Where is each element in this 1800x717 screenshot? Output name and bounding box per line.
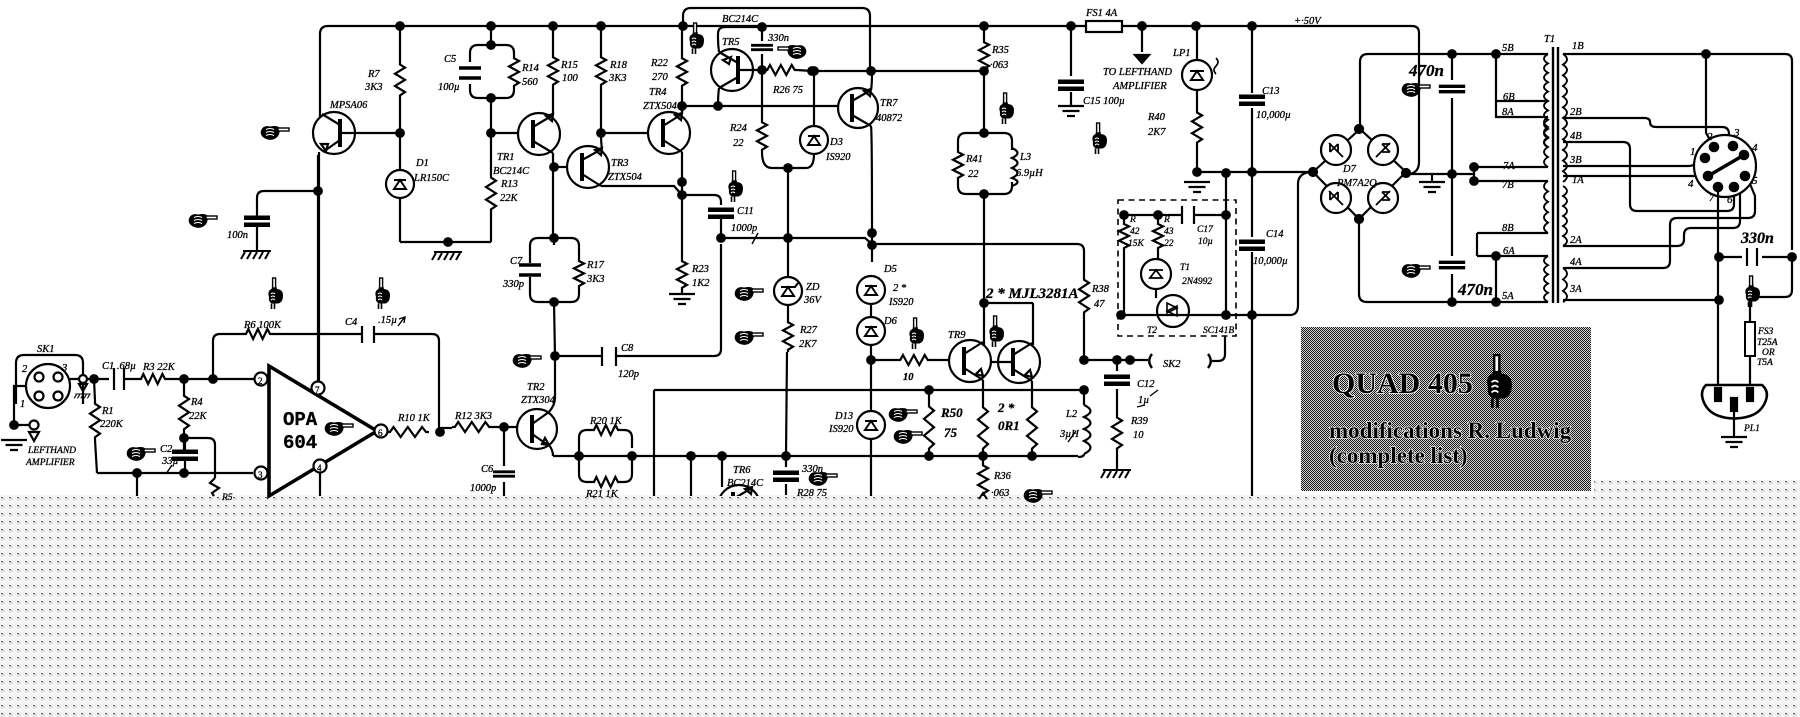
svg-text:+·50V: +·50V — [1294, 16, 1322, 27]
svg-text:2B: 2B — [1570, 107, 1582, 118]
hand at 330n TR5 (pointing left) — [778, 45, 806, 59]
wire to fuse FS3 — [1750, 257, 1792, 322]
svg-text:R14: R14 — [521, 63, 540, 74]
svg-text:C17: C17 — [1197, 225, 1214, 235]
capacitor C4 — [362, 326, 374, 343]
capacitor C5 / resistor R14 loop — [438, 26, 540, 102]
svg-text:R20 1K: R20 1K — [589, 416, 623, 427]
capacitor 470n top — [1451, 54, 1453, 174]
transistor TR3 — [567, 146, 643, 188]
svg-text:C6: C6 — [481, 464, 494, 475]
svg-text:R15: R15 — [560, 60, 578, 71]
svg-text:T1: T1 — [1544, 34, 1555, 45]
svg-text:C4: C4 — [345, 317, 358, 328]
connector SK2 — [1149, 354, 1211, 368]
wire MPSA06 emitter down — [318, 152, 320, 382]
svg-text:PM7A2Q: PM7A2Q — [1336, 178, 1377, 189]
svg-text:R26 75: R26 75 — [772, 85, 803, 96]
svg-text:ZTX304: ZTX304 — [521, 395, 556, 406]
capacitor C11 — [708, 208, 734, 220]
svg-text:FS3: FS3 — [1757, 327, 1774, 337]
svg-text:4A: 4A — [1570, 257, 1582, 268]
svg-text:T1: T1 — [1180, 263, 1190, 273]
svg-text:QUAD 405: QUAD 405 — [1332, 367, 1473, 400]
connector SK1 — [16, 344, 83, 410]
hand at 470n top — [1402, 83, 1430, 97]
svg-text:10µ: 10µ — [1198, 237, 1213, 247]
svg-text:R23: R23 — [691, 264, 709, 275]
capacitor C15 — [1070, 26, 1072, 106]
hand at D6 — [909, 318, 924, 349]
wire L3 loop down to TR9 collector — [983, 194, 985, 346]
svg-text:D6: D6 — [883, 316, 898, 327]
svg-text:C1 .68µ: C1 .68µ — [102, 361, 136, 372]
hand at C2 — [127, 447, 155, 461]
svg-text:4B: 4B — [1570, 131, 1582, 142]
hand at C11 — [728, 171, 743, 202]
svg-text:OPA: OPA — [283, 409, 318, 431]
fuse FS1 — [1085, 8, 1122, 32]
resistor R40 — [1192, 110, 1202, 145]
svg-text:7B: 7B — [1502, 180, 1514, 191]
svg-text:TR6: TR6 — [733, 465, 751, 476]
svg-text:22: 22 — [733, 138, 744, 149]
svg-text:PL1: PL1 — [1743, 424, 1760, 434]
svg-text:5: 5 — [1752, 175, 1758, 187]
svg-text:OR: OR — [1762, 348, 1775, 358]
transistor TR9 — [949, 340, 991, 382]
capacitor C1 — [114, 368, 139, 390]
svg-text:100µ: 100µ — [438, 82, 460, 93]
wire 1A to DIN pin4 — [1563, 175, 1703, 177]
wire op-amp pin7 up — [317, 155, 319, 382]
hand at R35 — [999, 93, 1014, 124]
svg-text:2A: 2A — [1570, 235, 1582, 246]
capacitor C8 line — [555, 244, 721, 356]
output rail upper — [654, 389, 1084, 391]
svg-text:D3: D3 — [829, 137, 843, 148]
wire AC rail to transformer 7A/7B — [1406, 173, 1474, 175]
hand at R36 — [1024, 489, 1052, 503]
svg-text:470n: 470n — [1457, 280, 1493, 299]
svg-text:0R1: 0R1 — [998, 418, 1020, 433]
svg-text:4: 4 — [317, 463, 322, 473]
wire C17 right vertical — [1225, 173, 1227, 315]
svg-text:22: 22 — [1164, 239, 1174, 249]
fuse FS3 — [1745, 322, 1755, 356]
svg-text:SK1: SK1 — [37, 344, 55, 355]
svg-text:8A: 8A — [1502, 107, 1514, 118]
svg-text:LR150C: LR150C — [413, 173, 450, 184]
svg-text:BC214C: BC214C — [493, 166, 530, 177]
svg-text:R22: R22 — [650, 58, 669, 69]
wire op-amp pin4 down — [319, 472, 321, 496]
wire +50V corner down to bridge — [1410, 26, 1419, 174]
svg-text:10: 10 — [1133, 430, 1144, 441]
wire TR2 collector up to C8 line — [549, 356, 555, 412]
svg-text:TR4: TR4 — [649, 87, 667, 98]
mains plug PL1 — [1702, 385, 1767, 434]
bridge rectifier D7 — [1309, 125, 1410, 223]
svg-text:7A: 7A — [1503, 161, 1515, 172]
resistor R39 — [1112, 415, 1122, 451]
svg-text:TO LEFTHAND: TO LEFTHAND — [1103, 67, 1172, 78]
svg-text:R13: R13 — [500, 179, 518, 190]
wire 4B route to DIN pin6 — [1563, 142, 1734, 211]
svg-text:6A: 6A — [1503, 246, 1515, 257]
svg-text:22K: 22K — [189, 411, 208, 422]
svg-text:3B: 3B — [1569, 155, 1582, 166]
svg-text:120p: 120p — [618, 369, 639, 380]
svg-text:R41: R41 — [965, 154, 983, 165]
svg-text:LEFTHAND: LEFTHAND — [27, 446, 76, 456]
hand at 330n right — [1745, 276, 1760, 307]
svg-text:R7: R7 — [367, 69, 380, 80]
wire 4A route — [1563, 179, 1755, 268]
svg-text:R4: R4 — [190, 397, 203, 408]
wire plug earth to ground — [1733, 411, 1735, 437]
resistor R27 — [783, 320, 793, 352]
svg-text:3: 3 — [61, 363, 67, 374]
svg-text:SK2: SK2 — [1163, 359, 1181, 370]
svg-text:SC141B: SC141B — [1203, 326, 1234, 336]
svg-text:1: 1 — [1690, 146, 1696, 158]
wire stub down from inverting line — [136, 473, 138, 496]
svg-text:C13: C13 — [1262, 86, 1280, 97]
wire TR7 collector/emitter column — [871, 71, 872, 262]
inductor L2 — [1083, 390, 1085, 405]
diode D1 LR150C — [386, 133, 450, 242]
svg-text:L2: L2 — [1065, 409, 1078, 420]
wire 2A route to DIN pin5 — [1563, 181, 1745, 246]
svg-text:220K: 220K — [100, 419, 124, 430]
svg-text:3µH: 3µH — [1059, 429, 1080, 440]
resistor R5 (cut off) — [210, 478, 219, 496]
svg-text:ZTX504: ZTX504 — [643, 101, 678, 112]
svg-text:R6 100K: R6 100K — [243, 320, 282, 331]
svg-text:2K7: 2K7 — [1148, 127, 1166, 138]
wire 6B/8A link — [1496, 54, 1548, 117]
svg-text:2 *: 2 * — [893, 283, 907, 294]
svg-text:modifications R. Ludwig: modifications R. Ludwig — [1329, 418, 1572, 443]
svg-text:LP1: LP1 — [1172, 48, 1191, 59]
svg-text:47: 47 — [1094, 299, 1105, 310]
transistor TR2 — [517, 382, 557, 449]
svg-text:10,000µ: 10,000µ — [1253, 256, 1288, 267]
hand at 470n bottom — [1402, 264, 1430, 278]
svg-text:10: 10 — [903, 372, 914, 383]
svg-text:T2: T2 — [1147, 326, 1157, 336]
wire C5 bottom to TR1 base — [491, 98, 519, 133]
svg-text:D5: D5 — [883, 264, 897, 275]
svg-text:R38: R38 — [1091, 284, 1110, 295]
thyristor T2 SC141B — [1147, 289, 1234, 336]
svg-text:BC214C: BC214C — [722, 14, 759, 25]
halftone dotted paper area bottom — [0, 495, 1594, 717]
svg-text:2 *: 2 * — [997, 400, 1015, 415]
svg-text:R36: R36 — [993, 471, 1012, 482]
wire SK1 pin3 to C1 — [70, 378, 109, 380]
svg-text:C11: C11 — [737, 206, 754, 217]
svg-text:IS920: IS920 — [825, 152, 851, 163]
svg-text:1000p: 1000p — [731, 223, 757, 234]
wire D1 bottom to ground node — [400, 241, 491, 243]
svg-text:33µ: 33µ — [161, 456, 179, 467]
svg-text:TR7: TR7 — [880, 98, 898, 109]
wire inverting input line — [97, 472, 253, 474]
wire bridge bottom to lower rail — [1359, 219, 1367, 302]
diode D13 — [828, 360, 885, 496]
ground under D1 node — [432, 252, 462, 260]
svg-text:R27: R27 — [799, 325, 818, 336]
svg-text:4: 4 — [1688, 178, 1694, 190]
ground R23 — [669, 294, 695, 304]
transistor MPSA06 — [313, 100, 400, 154]
svg-text:C14: C14 — [1266, 229, 1284, 240]
resistor R3 — [139, 374, 167, 384]
svg-text:D13: D13 — [834, 411, 853, 422]
svg-text:IS920: IS920 — [828, 424, 854, 435]
output rail lower — [553, 455, 1078, 457]
svg-text:2: 2 — [22, 364, 28, 375]
svg-text:40872: 40872 — [876, 113, 903, 124]
zener ZD 36V — [774, 238, 823, 320]
hand at MPSA06 — [261, 126, 289, 140]
hand at R27 — [735, 331, 763, 345]
svg-text:15K: 15K — [1128, 239, 1145, 249]
transistor TR10 — [991, 341, 1040, 383]
wire TR2 emitter to rail — [549, 445, 553, 456]
capacitor C12 — [1116, 360, 1118, 415]
svg-text:BC214C: BC214C — [727, 478, 764, 489]
transistor TR7 — [838, 88, 903, 128]
resistor R23 — [677, 259, 687, 290]
svg-text:TR9: TR9 — [948, 330, 966, 341]
wire to C11 — [682, 195, 721, 205]
svg-text:C7: C7 — [510, 256, 523, 267]
svg-text:8B: 8B — [1502, 223, 1514, 234]
svg-text:75: 75 — [944, 425, 958, 440]
capacitor 330n at TR5 — [761, 27, 763, 70]
resistor R18 — [600, 26, 602, 133]
lamp LP1 — [1172, 26, 1218, 110]
svg-text:7: 7 — [1709, 192, 1715, 204]
ground R39 — [1101, 470, 1131, 478]
svg-text:TR2: TR2 — [527, 382, 545, 393]
svg-text:R12 3K3: R12 3K3 — [454, 411, 492, 422]
wire top loop right down to TR7 node — [867, 8, 984, 90]
wire C7 loop bottom down to C8 node — [554, 302, 555, 356]
capacitor C17 — [1124, 214, 1226, 216]
feedback R6 C4 line — [213, 334, 244, 379]
wire 2B to DIN pin3 — [1563, 118, 1729, 140]
svg-text:R50: R50 — [940, 405, 963, 420]
wire 8B/6A link — [1477, 233, 1548, 256]
capacitor 330n right — [1719, 256, 1792, 258]
resistor R12 — [440, 427, 452, 429]
resistor R10 — [386, 430, 388, 432]
hand at R28 — [809, 472, 837, 486]
svg-text:.15µ: .15µ — [378, 315, 397, 326]
svg-text:3K3: 3K3 — [608, 73, 627, 84]
bottom zero rail — [1121, 314, 1290, 316]
svg-text:AMPLIFIER: AMPLIFIER — [1112, 81, 1167, 92]
diode D5 — [857, 264, 914, 308]
resistor R35 — [983, 26, 985, 40]
resistor R50 — [928, 390, 930, 403]
svg-text:R21 1K: R21 1K — [585, 489, 619, 500]
svg-text:AMPLIFIER: AMPLIFIER — [25, 458, 75, 468]
svg-text:R3 22K: R3 22K — [142, 362, 176, 373]
svg-text:3A: 3A — [1569, 284, 1582, 295]
wire TR3 collector up / base TR4 — [601, 133, 648, 149]
capacitor C7 / resistor R17 loop — [502, 234, 605, 306]
wire mid rail C11 — [721, 238, 1084, 277]
resistor R7 — [399, 26, 401, 62]
wire TR5 collector loop — [718, 27, 762, 106]
wire R24/D3 bottom node — [772, 167, 806, 169]
svg-text:(complete list): (complete list) — [1329, 443, 1468, 468]
hand at C4 — [375, 278, 390, 309]
svg-text:560: 560 — [522, 77, 539, 88]
svg-text:·063: ·063 — [991, 488, 1009, 499]
svg-text:2: 2 — [1707, 131, 1713, 143]
svg-text:22K: 22K — [500, 193, 519, 204]
svg-text:6: 6 — [1727, 194, 1733, 206]
op-amp U1 OPA604 — [269, 366, 377, 496]
ground SK1 — [1, 440, 27, 450]
svg-text:100n: 100n — [227, 230, 248, 241]
svg-text:R: R — [1163, 215, 1170, 225]
wire top supply rail — [328, 25, 1412, 27]
wire long vertical to bottom — [1251, 315, 1253, 496]
mid zero-volt rail — [1197, 171, 1309, 173]
hand at ZD — [735, 287, 763, 301]
wire parallel vertical x1298 — [1290, 172, 1309, 315]
transistor TR4 — [643, 87, 690, 154]
svg-text:R35: R35 — [991, 45, 1009, 56]
transistor TR1 — [493, 113, 560, 177]
hand at BC214C — [689, 23, 704, 54]
hand at C8 — [513, 354, 541, 368]
resistor R22 — [681, 26, 683, 114]
hand at 100n — [189, 214, 217, 228]
capacitor 100n branch — [257, 191, 318, 251]
svg-text:6.9µH: 6.9µH — [1016, 168, 1044, 179]
svg-text:270: 270 — [652, 72, 669, 83]
svg-text:R40: R40 — [1147, 112, 1166, 123]
wire R4 bottom to R5 stub — [184, 438, 215, 478]
svg-text:·063: ·063 — [990, 60, 1008, 71]
wire 3A rail to plug — [1563, 299, 1719, 301]
svg-text:1K2: 1K2 — [692, 278, 710, 289]
resistor R24 — [761, 70, 763, 120]
DIN selector plug — [1688, 127, 1758, 206]
hand inside op-amp — [325, 422, 353, 436]
wire rail left corner down — [320, 26, 328, 117]
svg-text:R24: R24 — [729, 123, 748, 134]
capacitor C13 — [1251, 26, 1253, 172]
wire collector link TR10 — [984, 303, 1033, 345]
svg-text:R5: R5 — [221, 493, 233, 503]
wire DIN pin7 down — [1717, 191, 1719, 385]
svg-text:2K7: 2K7 — [799, 339, 817, 350]
wire TR1 collector down to TR3 base — [552, 153, 554, 237]
svg-text:T5A: T5A — [1757, 358, 1773, 368]
resistor R13 — [490, 133, 492, 242]
diode D6 — [857, 304, 898, 345]
svg-text:R17: R17 — [586, 260, 605, 271]
svg-text:36V: 36V — [803, 295, 823, 306]
svg-text:330p: 330p — [502, 279, 524, 290]
wire SK1 pin1 to ground — [14, 386, 30, 425]
svg-text:C15 100µ: C15 100µ — [1083, 96, 1125, 107]
wire TR4/TR3 emitter node — [601, 152, 682, 259]
svg-text:43: 43 — [1164, 227, 1174, 237]
wire 3B to DIN pin1 — [1563, 159, 1701, 166]
svg-text:3: 3 — [258, 470, 263, 480]
capacitor C14 — [1251, 172, 1253, 316]
svg-text:2 * MJL3281A: 2 * MJL3281A — [985, 286, 1079, 302]
svg-text:C5: C5 — [444, 54, 456, 65]
svg-text:22: 22 — [968, 169, 979, 180]
capacitor 470n bottom — [1451, 174, 1453, 302]
hand at C15 — [1092, 123, 1107, 154]
resistor R41 / inductor L3 loop — [953, 71, 1044, 198]
wire 1B to DIN pin2 — [1706, 54, 1713, 145]
svg-text:3: 3 — [1733, 127, 1740, 139]
svg-text:330n: 330n — [767, 33, 789, 44]
svg-text:2N4992: 2N4992 — [1182, 277, 1212, 287]
svg-text:T25A: T25A — [1757, 338, 1778, 348]
capacitor 330n at R28 — [785, 456, 787, 495]
svg-text:5A: 5A — [1502, 291, 1514, 302]
hand at TR9 — [989, 316, 1004, 347]
resistors 2x 0R1 — [978, 404, 988, 452]
wire T2 cathode rail — [1117, 311, 1125, 319]
svg-text:C8: C8 — [621, 343, 634, 354]
wire secondary 1B rail — [1563, 54, 1792, 250]
resistor R43 — [1157, 215, 1159, 222]
resistor R20 / R21 loop — [579, 416, 632, 500]
capacitor C2 — [172, 450, 198, 462]
transformer T1 — [1502, 34, 1584, 303]
wire stubs down from rail — [691, 456, 722, 496]
ground transformer — [1431, 174, 1433, 182]
svg-text:R39: R39 — [1130, 416, 1149, 427]
svg-text:6: 6 — [378, 428, 383, 438]
svg-text:TR5: TR5 — [722, 37, 740, 48]
capacitor C6 — [503, 427, 505, 496]
svg-text:100: 100 — [562, 73, 579, 84]
svg-text:3K3: 3K3 — [586, 274, 605, 285]
svg-text:1µ: 1µ — [1138, 395, 1149, 406]
wire TR4 base node to TR7 base — [682, 105, 839, 107]
resistor R26 — [765, 65, 797, 75]
svg-text:1: 1 — [20, 399, 25, 410]
BC214C top loop — [683, 8, 870, 71]
svg-text:10,000µ: 10,000µ — [1256, 110, 1291, 121]
svg-text:2: 2 — [258, 376, 263, 386]
thyristor protection dashed box — [1118, 200, 1236, 336]
wire SK2 line — [1084, 336, 1225, 361]
svg-text:1B: 1B — [1572, 41, 1584, 52]
svg-text:3K3: 3K3 — [364, 82, 383, 93]
resistor R4 — [183, 379, 185, 450]
svg-text:R10 1K: R10 1K — [397, 413, 431, 424]
svg-text:R: R — [1129, 215, 1136, 225]
svg-text:TR1: TR1 — [497, 152, 515, 163]
